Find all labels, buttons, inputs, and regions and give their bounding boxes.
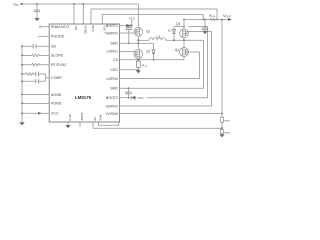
ground (DITH) (65, 125, 70, 128)
svg-text:CS: CS (113, 58, 119, 62)
node VOUT label (223, 14, 232, 19)
right pin labels (105, 24, 118, 116)
wire PGND to bus (22, 102, 49, 104)
bottom pin labels (rotated) (68, 113, 103, 121)
wire ENA/UVLO stub (40, 25, 49, 28)
wire Q2 source to CS node (137, 58, 139, 61)
wire VIN top pin 1 drop (73, 4, 75, 24)
resistor RSNS (210, 18, 215, 20)
svg-text:FB: FB (93, 117, 97, 121)
wire AGND to bus (22, 94, 49, 96)
transistor Q3 (180, 29, 189, 38)
wire PGOOD stub (38, 35, 49, 37)
svg-text:PGND: PGND (51, 102, 62, 106)
wire VOSNS to feedback divider (120, 113, 223, 115)
capacitor CC2 (COMP lower branch) (22, 80, 46, 82)
wire VOUT rail from top pin to pre-Rsns node (102, 15, 203, 25)
wire VISNS top pin 2 drop (82, 4, 84, 24)
capacitor CB2 boot2 (127, 87, 129, 89)
svg-text:LDRV1: LDRV1 (106, 50, 118, 54)
ground (feedback divider) (219, 134, 224, 137)
svg-text:BOOT2: BOOT2 (106, 96, 118, 100)
wire SW1 node to inductor (138, 39, 149, 41)
svg-text:RCS: RCS (142, 63, 147, 68)
wire Q4 drain to SW2 node (183, 40, 185, 47)
wire HDRV1 to Q1 gate (120, 32, 136, 34)
diode DB2 boot2 (120, 96, 144, 100)
svg-text:MODE: MODE (80, 113, 84, 121)
IC U1 LM5175 body (49, 24, 119, 122)
wire Q4 source drop (183, 57, 185, 60)
svg-text:SW2: SW2 (110, 87, 118, 91)
svg-text:VCC: VCC (129, 16, 135, 20)
diode D2 across Q2 (153, 43, 155, 60)
wire HDRV2 riser to Q3 gate (120, 32, 212, 107)
svg-text:VISNS: VISNS (83, 26, 87, 34)
wire FB pin to divider (93, 122, 222, 128)
svg-text:BOOT1: BOOT1 (106, 24, 118, 28)
svg-text:LM5175: LM5175 (75, 95, 92, 100)
svg-text:D1: D1 (168, 29, 172, 33)
resistor RFB2 (221, 130, 224, 134)
wire SW2 riser (120, 40, 204, 88)
wire VIN rail (23, 3, 139, 5)
capacitor CSS on SS pin (22, 45, 49, 47)
wire D1 top loop (174, 26, 184, 28)
wire COMP join (46, 74, 50, 81)
wire RCS to ground (137, 67, 139, 70)
transistor Q1 (134, 27, 143, 36)
wire VIN rail drop to Q1 drain (137, 4, 139, 27)
svg-text:BIAS: BIAS (91, 26, 95, 32)
wire CSG pin (120, 69, 139, 71)
wire inductor to SW2 riser (166, 39, 204, 41)
inductor L1 (149, 38, 166, 41)
wire DITH pin drop (67, 122, 69, 125)
capacitor CB1 boot1 (131, 25, 133, 27)
wire Q4 gate to LDRV2 riser (187, 51, 200, 53)
svg-text:AGND: AGND (51, 93, 62, 97)
wire Q3 drain to VOUT rail (183, 20, 185, 29)
svg-text:SS: SS (51, 45, 56, 49)
svg-text:Q1: Q1 (146, 29, 150, 33)
ground (COUT) (202, 31, 207, 34)
ground (RCS) (136, 70, 141, 73)
svg-text:CSG: CSG (110, 68, 118, 72)
wire LDRV1 to Q2 gate (120, 50, 136, 52)
ground (left bus) (19, 122, 24, 125)
svg-text:SLOPE: SLOPE (51, 54, 64, 58)
svg-text:Q4: Q4 (175, 48, 179, 52)
wire VOUT power rail (184, 19, 228, 21)
ground (CIN) (34, 18, 39, 21)
wire SW1 pin (120, 42, 154, 44)
top pin labels (rotated) (74, 26, 106, 34)
resistor RT on RT/SYNC pin (22, 63, 49, 66)
wire MODE pin stub (79, 122, 81, 127)
svg-text:RFB2: RFB2 (224, 132, 230, 134)
capacitor CIN (34, 4, 40, 18)
svg-text:Q2: Q2 (146, 50, 150, 54)
resistor RSLOPE on SLOPE pin (22, 54, 49, 57)
svg-text:L1: L1 (157, 34, 161, 38)
wire VCC to bus with arrow mark (22, 112, 49, 114)
svg-text:RFB1: RFB1 (224, 120, 230, 122)
wire feedback divider column (221, 20, 223, 118)
wire left ground bus (21, 46, 23, 122)
capacitor COUT (204, 19, 206, 21)
svg-text:PGOOD: PGOOD (51, 35, 65, 39)
wire Q1 source to Q2 drain (SW1 trunk) (137, 36, 139, 49)
transistor Q2 (134, 50, 143, 59)
svg-text:VIN: VIN (74, 26, 78, 31)
wire Q3 gate to HDRV2 riser (187, 31, 212, 33)
resistor RCS (136, 61, 140, 67)
svg-text:ENA/UVLO: ENA/UVLO (51, 25, 69, 29)
svg-text:VIN: VIN (13, 2, 18, 7)
svg-text:RSNS: RSNS (209, 13, 216, 18)
svg-text:Q3: Q3 (176, 22, 180, 26)
svg-text:VOUT: VOUT (223, 14, 232, 19)
svg-text:VCC: VCC (138, 96, 144, 100)
diode D1 across Q3 (173, 27, 175, 41)
svg-text:SW1: SW1 (110, 42, 118, 46)
svg-text:RT/SYNC: RT/SYNC (51, 63, 67, 67)
transistor Q4 (180, 48, 189, 57)
node junction on VIN rail at CIN (36, 3, 38, 5)
diode DB1 boot1 (120, 16, 135, 27)
svg-text:VOSNS: VOSNS (105, 112, 118, 116)
svg-text:DITH: DITH (68, 114, 72, 120)
svg-text:BIAS: BIAS (99, 115, 103, 121)
wire BIAS rail from top pin to output node (91, 9, 217, 24)
svg-text:HDRV2: HDRV2 (106, 104, 118, 108)
svg-text:COMP: COMP (51, 76, 62, 80)
resistor RFB1 (221, 117, 224, 122)
svg-text:VOUT: VOUT (102, 26, 106, 34)
wire BIAS pin bracket (99, 122, 119, 125)
wire CS pin and return line to Q4 source (120, 59, 185, 61)
svg-text:LDRV2: LDRV2 (106, 77, 118, 81)
svg-text:HDRV1: HDRV1 (106, 31, 118, 35)
wire Q3 source to SW2 node (183, 38, 185, 41)
wire BOOT2 riser to Q3 drain tee (147, 27, 208, 98)
resistor RC and capacitor CC (COMP upper branch) (22, 73, 46, 76)
svg-text:VCC: VCC (51, 112, 59, 116)
wire LDRV2 riser (120, 52, 200, 79)
node VIN label (13, 2, 22, 7)
